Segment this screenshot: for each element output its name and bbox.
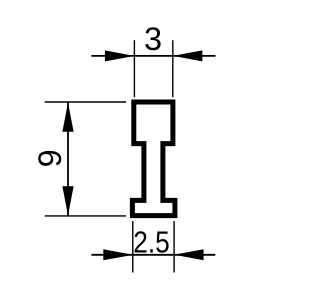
dimension 3: right extension line [172,40,174,97]
I-beam cross-section outline [132,102,175,216]
dimension 3: left arrowhead [105,50,134,61]
svg-text:3: 3 [144,21,162,57]
dimension 2.5: right extension line [173,221,175,273]
dimension 3: right arrowhead [173,50,203,61]
dimension 2.5: right arrowhead [174,249,204,260]
dimension 2.5: dimension line [91,254,215,256]
dimension 3: left extension line [133,40,135,97]
dimension 9: top arrowhead [62,102,73,132]
dimension 2.5: left extension line [132,221,134,273]
dimension 2.5: left arrowhead [103,249,133,260]
svg-text:9: 9 [32,149,68,167]
dimension 9: bottom arrowhead [62,186,73,216]
dimension 9: top extension line [45,101,126,103]
svg-text:2.5: 2.5 [133,225,170,260]
dimension 9: bottom extension line [45,215,126,217]
dimension 9: dimension line [67,102,69,216]
dimension 3: dimension line [91,55,215,57]
